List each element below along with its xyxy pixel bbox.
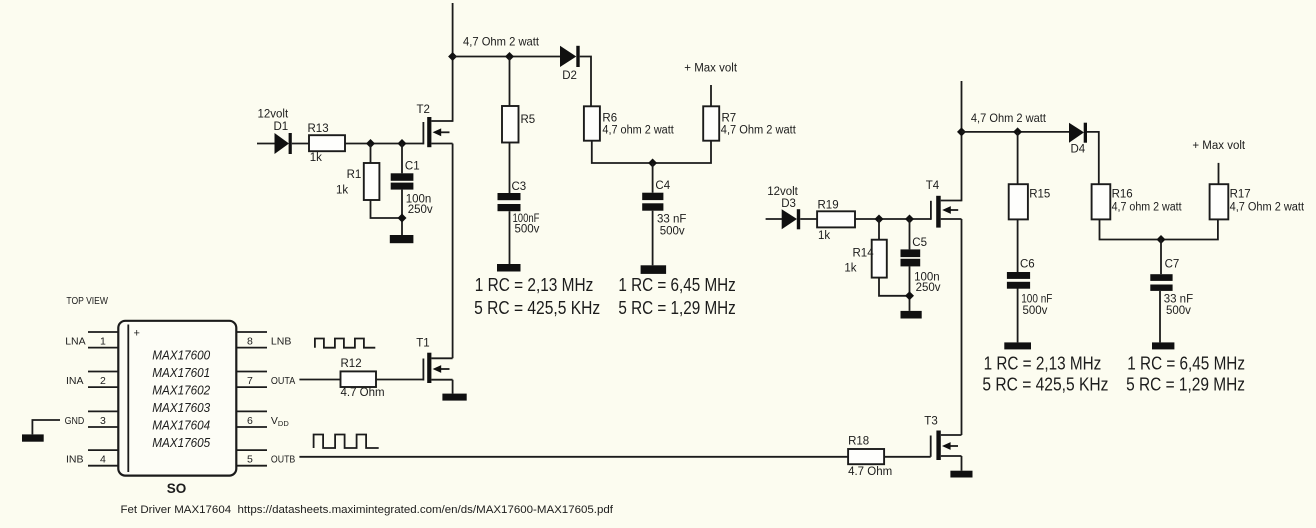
wire input right — [766, 218, 782, 220]
svg-text:SO: SO — [167, 481, 187, 496]
wire node to C5 — [909, 219, 911, 249]
resistor R7 — [703, 106, 719, 140]
svg-text:C3: C3 — [512, 181, 527, 193]
svg-text:LNB: LNB — [271, 336, 291, 348]
svg-text:D2: D2 — [562, 70, 577, 82]
svg-text:MAX17601: MAX17601 — [152, 365, 210, 380]
wire R14 bottom — [879, 278, 910, 296]
wire R5 to C3 — [509, 143, 511, 194]
capacitor C4 — [642, 193, 663, 211]
node junction — [957, 127, 966, 136]
svg-text:4,7 Ohm 2 watt: 4,7 Ohm 2 watt — [463, 35, 540, 49]
svg-text:6: 6 — [247, 415, 253, 427]
wire R13 to T2 gate — [345, 143, 423, 145]
svg-text:500v: 500v — [660, 226, 685, 238]
node junction — [398, 139, 407, 148]
svg-text:MAX17600: MAX17600 — [152, 348, 211, 363]
svg-text:R7: R7 — [722, 112, 737, 124]
resistor R16 — [1092, 184, 1111, 219]
pin 2 — [88, 372, 118, 388]
svg-text:T3: T3 — [924, 416, 937, 428]
ground — [641, 265, 667, 274]
wire C4 to ground — [652, 211, 654, 266]
wire R6 bottom rail — [592, 141, 711, 163]
svg-text:+ Max volt: + Max volt — [1192, 140, 1246, 152]
wire C7 to ground — [1159, 291, 1161, 343]
ground — [497, 264, 521, 272]
wire D4 to R16 — [1087, 132, 1099, 184]
wire rail to R5 — [509, 57, 511, 107]
svg-text:R5: R5 — [521, 114, 536, 126]
capacitor C6 — [1007, 272, 1030, 289]
resistor R12 — [341, 371, 377, 387]
svg-text:12volt: 12volt — [767, 186, 798, 198]
wire top rail — [453, 56, 561, 58]
capacitor C7 — [1150, 274, 1172, 291]
wire node to C1 — [401, 144, 403, 174]
svg-text:4,7 ohm 2 watt: 4,7 ohm 2 watt — [602, 124, 674, 136]
svg-text:4,7 ohm 2 watt: 4,7 ohm 2 watt — [1112, 201, 1183, 213]
node junction — [648, 159, 657, 168]
wire Max volt stub to R7 — [710, 85, 712, 106]
wire T4 source down to T3 drain — [961, 219, 963, 435]
svg-text:C4: C4 — [655, 180, 670, 192]
pin 1 — [88, 332, 118, 348]
svg-text:C5: C5 — [912, 237, 927, 249]
node junction — [875, 215, 884, 224]
wire T2 source down to T1 drain — [452, 144, 454, 359]
node junction — [448, 52, 457, 61]
square wave LNB — [315, 339, 375, 348]
pin 5 — [236, 450, 267, 466]
svg-text:5 RC = 1,29 MHz: 5 RC = 1,29 MHz — [1126, 374, 1245, 395]
node junction — [1157, 235, 1166, 244]
wire R18 to T3 gate — [884, 456, 931, 458]
svg-text:1 RC = 6,45 MHz: 1 RC = 6,45 MHz — [1127, 352, 1245, 373]
svg-text:D1: D1 — [274, 121, 289, 133]
square wave OUTB — [314, 435, 379, 449]
resistor R19 — [817, 211, 855, 227]
pin 3 — [88, 411, 118, 427]
svg-text:5 RC = 425,5 KHz: 5 RC = 425,5 KHz — [982, 374, 1108, 395]
op-amp U1 MAX1760x driver IC body — [118, 321, 236, 476]
svg-text:4,7 Ohm 2 watt: 4,7 Ohm 2 watt — [971, 111, 1047, 125]
wire node to R1 — [370, 144, 372, 164]
svg-text:R15: R15 — [1029, 189, 1050, 201]
resistor R5 — [502, 106, 519, 143]
svg-text:5 RC = 425,5 KHz: 5 RC = 425,5 KHz — [474, 297, 600, 318]
svg-text:4,7 Ohm 2 watt: 4,7 Ohm 2 watt — [721, 124, 797, 136]
svg-text:4.7 Ohm: 4.7 Ohm — [341, 387, 385, 399]
svg-text:R13: R13 — [308, 123, 329, 135]
svg-text:R16: R16 — [1112, 189, 1133, 201]
svg-text:4.7 Ohm: 4.7 Ohm — [848, 466, 892, 478]
pin 8 — [236, 332, 267, 348]
resistor R13 — [309, 135, 345, 151]
resistor R14 — [872, 240, 887, 278]
wire D3 to R19 — [800, 218, 817, 220]
svg-text:+: + — [134, 328, 140, 340]
wire R15 to C6 — [1017, 219, 1019, 272]
wire D2 to R6 — [580, 57, 591, 107]
pin 7 — [236, 372, 267, 388]
svg-text:T4: T4 — [926, 180, 940, 192]
svg-text:D3: D3 — [781, 198, 796, 210]
wire C6 to ground — [1017, 289, 1019, 343]
svg-text:33 nF: 33 nF — [657, 213, 686, 225]
svg-text:R14: R14 — [853, 247, 875, 259]
svg-text:R18: R18 — [848, 435, 869, 447]
svg-text:C1: C1 — [405, 161, 420, 173]
wire Max volt stub to R17 — [1218, 163, 1220, 184]
svg-text:MAX17602: MAX17602 — [152, 383, 211, 398]
svg-text:T1: T1 — [416, 338, 429, 350]
svg-text:D4: D4 — [1071, 144, 1086, 156]
svg-text:INB: INB — [66, 454, 84, 466]
ground — [901, 311, 922, 319]
diode D4 — [1069, 123, 1087, 143]
svg-text:500v: 500v — [1023, 305, 1048, 317]
wire R19 to T4 gate — [855, 218, 931, 220]
node junction — [905, 291, 914, 300]
wire vertical top to T4 drain — [961, 81, 963, 201]
resistor R6 — [584, 106, 600, 140]
svg-text:1k: 1k — [336, 185, 348, 197]
svg-text:7: 7 — [247, 375, 253, 387]
wire node to C4 — [652, 163, 654, 193]
svg-text:Fet Driver MAX17604 https://d: Fet Driver MAX17604 https://datasheets.m… — [121, 504, 615, 516]
diode D2 — [560, 46, 580, 67]
wire node to R14 — [878, 219, 880, 240]
svg-text:TOP VIEW: TOP VIEW — [66, 296, 108, 307]
svg-text:5 RC = 1,29 MHz: 5 RC = 1,29 MHz — [618, 297, 735, 318]
svg-text:4,7 Ohm 2 watt: 4,7 Ohm 2 watt — [1230, 201, 1305, 213]
svg-text:GND: GND — [65, 415, 85, 427]
svg-text:5: 5 — [247, 454, 253, 466]
wire node to C7 — [1160, 240, 1162, 275]
wire vertical top to T2 drain — [452, 3, 454, 122]
transistor T3 — [931, 431, 962, 471]
wire C3 to ground — [509, 211, 511, 264]
node junction — [905, 215, 914, 224]
wire C5 bottom — [909, 266, 911, 311]
node junction — [398, 214, 407, 223]
node junction — [366, 139, 375, 148]
wire D1 to R13 — [292, 143, 309, 145]
wire GND to ground — [32, 420, 60, 434]
svg-text:OUTA: OUTA — [271, 375, 295, 387]
ground — [390, 235, 414, 243]
wire R12 to T1 gate — [376, 379, 423, 381]
resistor R17 — [1210, 184, 1229, 219]
svg-text:T2: T2 — [417, 104, 430, 116]
svg-text:R6: R6 — [602, 112, 617, 124]
svg-text:250v: 250v — [408, 204, 433, 216]
capacitor C3 — [498, 193, 521, 211]
svg-text:1 RC = 6,45 MHz: 1 RC = 6,45 MHz — [618, 274, 735, 295]
svg-text:OUTB: OUTB — [271, 454, 295, 466]
svg-text:MAX17603: MAX17603 — [152, 400, 211, 415]
transistor T2 — [423, 117, 452, 147]
svg-text:8: 8 — [247, 336, 253, 348]
svg-text:1 RC = 2,13 MHz: 1 RC = 2,13 MHz — [475, 274, 594, 295]
ground — [1152, 342, 1174, 349]
wire R1 bottom — [371, 200, 403, 218]
svg-text:+ Max volt: + Max volt — [684, 62, 738, 74]
svg-text:R1: R1 — [347, 169, 362, 181]
svg-text:3: 3 — [100, 415, 106, 427]
wire input left — [257, 143, 275, 145]
capacitor C1 — [391, 173, 414, 189]
svg-text:MAX17605: MAX17605 — [152, 435, 211, 450]
svg-text:500v: 500v — [515, 224, 540, 236]
svg-text:1k: 1k — [310, 152, 322, 164]
transistor T4 — [931, 196, 962, 228]
svg-text:1 RC = 2,13 MHz: 1 RC = 2,13 MHz — [984, 352, 1102, 373]
ground — [442, 394, 466, 401]
ground — [22, 434, 44, 441]
svg-text:1k: 1k — [818, 230, 830, 242]
svg-text:R12: R12 — [341, 358, 362, 370]
wire rail to R15 — [1017, 132, 1019, 184]
svg-text:250v: 250v — [916, 282, 941, 294]
svg-text:500v: 500v — [1166, 305, 1191, 317]
resistor R1 — [364, 163, 380, 200]
svg-text:1: 1 — [100, 336, 106, 348]
ground — [950, 471, 972, 478]
node junction — [505, 52, 514, 61]
node junction — [1013, 127, 1022, 136]
svg-text:R17: R17 — [1230, 189, 1251, 201]
svg-text:12volt: 12volt — [258, 109, 289, 121]
wire R16 bottom rail — [1100, 219, 1218, 239]
svg-text:C7: C7 — [1165, 259, 1180, 271]
diode D3 — [782, 209, 801, 229]
resistor R15 — [1009, 184, 1028, 219]
pin 6 — [236, 411, 267, 427]
wire C1 bottom — [401, 190, 403, 235]
IC inner edge line — [127, 325, 129, 473]
resistor R18 — [848, 449, 884, 464]
svg-text:C6: C6 — [1020, 259, 1035, 271]
ground — [1004, 342, 1031, 349]
wire top rail right — [962, 131, 1070, 133]
svg-text:LNA: LNA — [65, 336, 85, 348]
svg-text:R19: R19 — [818, 200, 839, 212]
svg-text:INA: INA — [66, 375, 84, 387]
diode D1 — [275, 133, 292, 154]
svg-text:2: 2 — [100, 375, 106, 387]
pin 4 — [88, 450, 118, 466]
capacitor C5 — [901, 249, 921, 266]
svg-text:4: 4 — [100, 454, 106, 466]
svg-text:1k: 1k — [844, 263, 856, 275]
svg-text:MAX17604: MAX17604 — [152, 418, 210, 433]
wire OUTA to R12 — [299, 379, 340, 381]
wire OUTB to R18 — [299, 456, 848, 458]
transistor T1 — [423, 353, 452, 394]
